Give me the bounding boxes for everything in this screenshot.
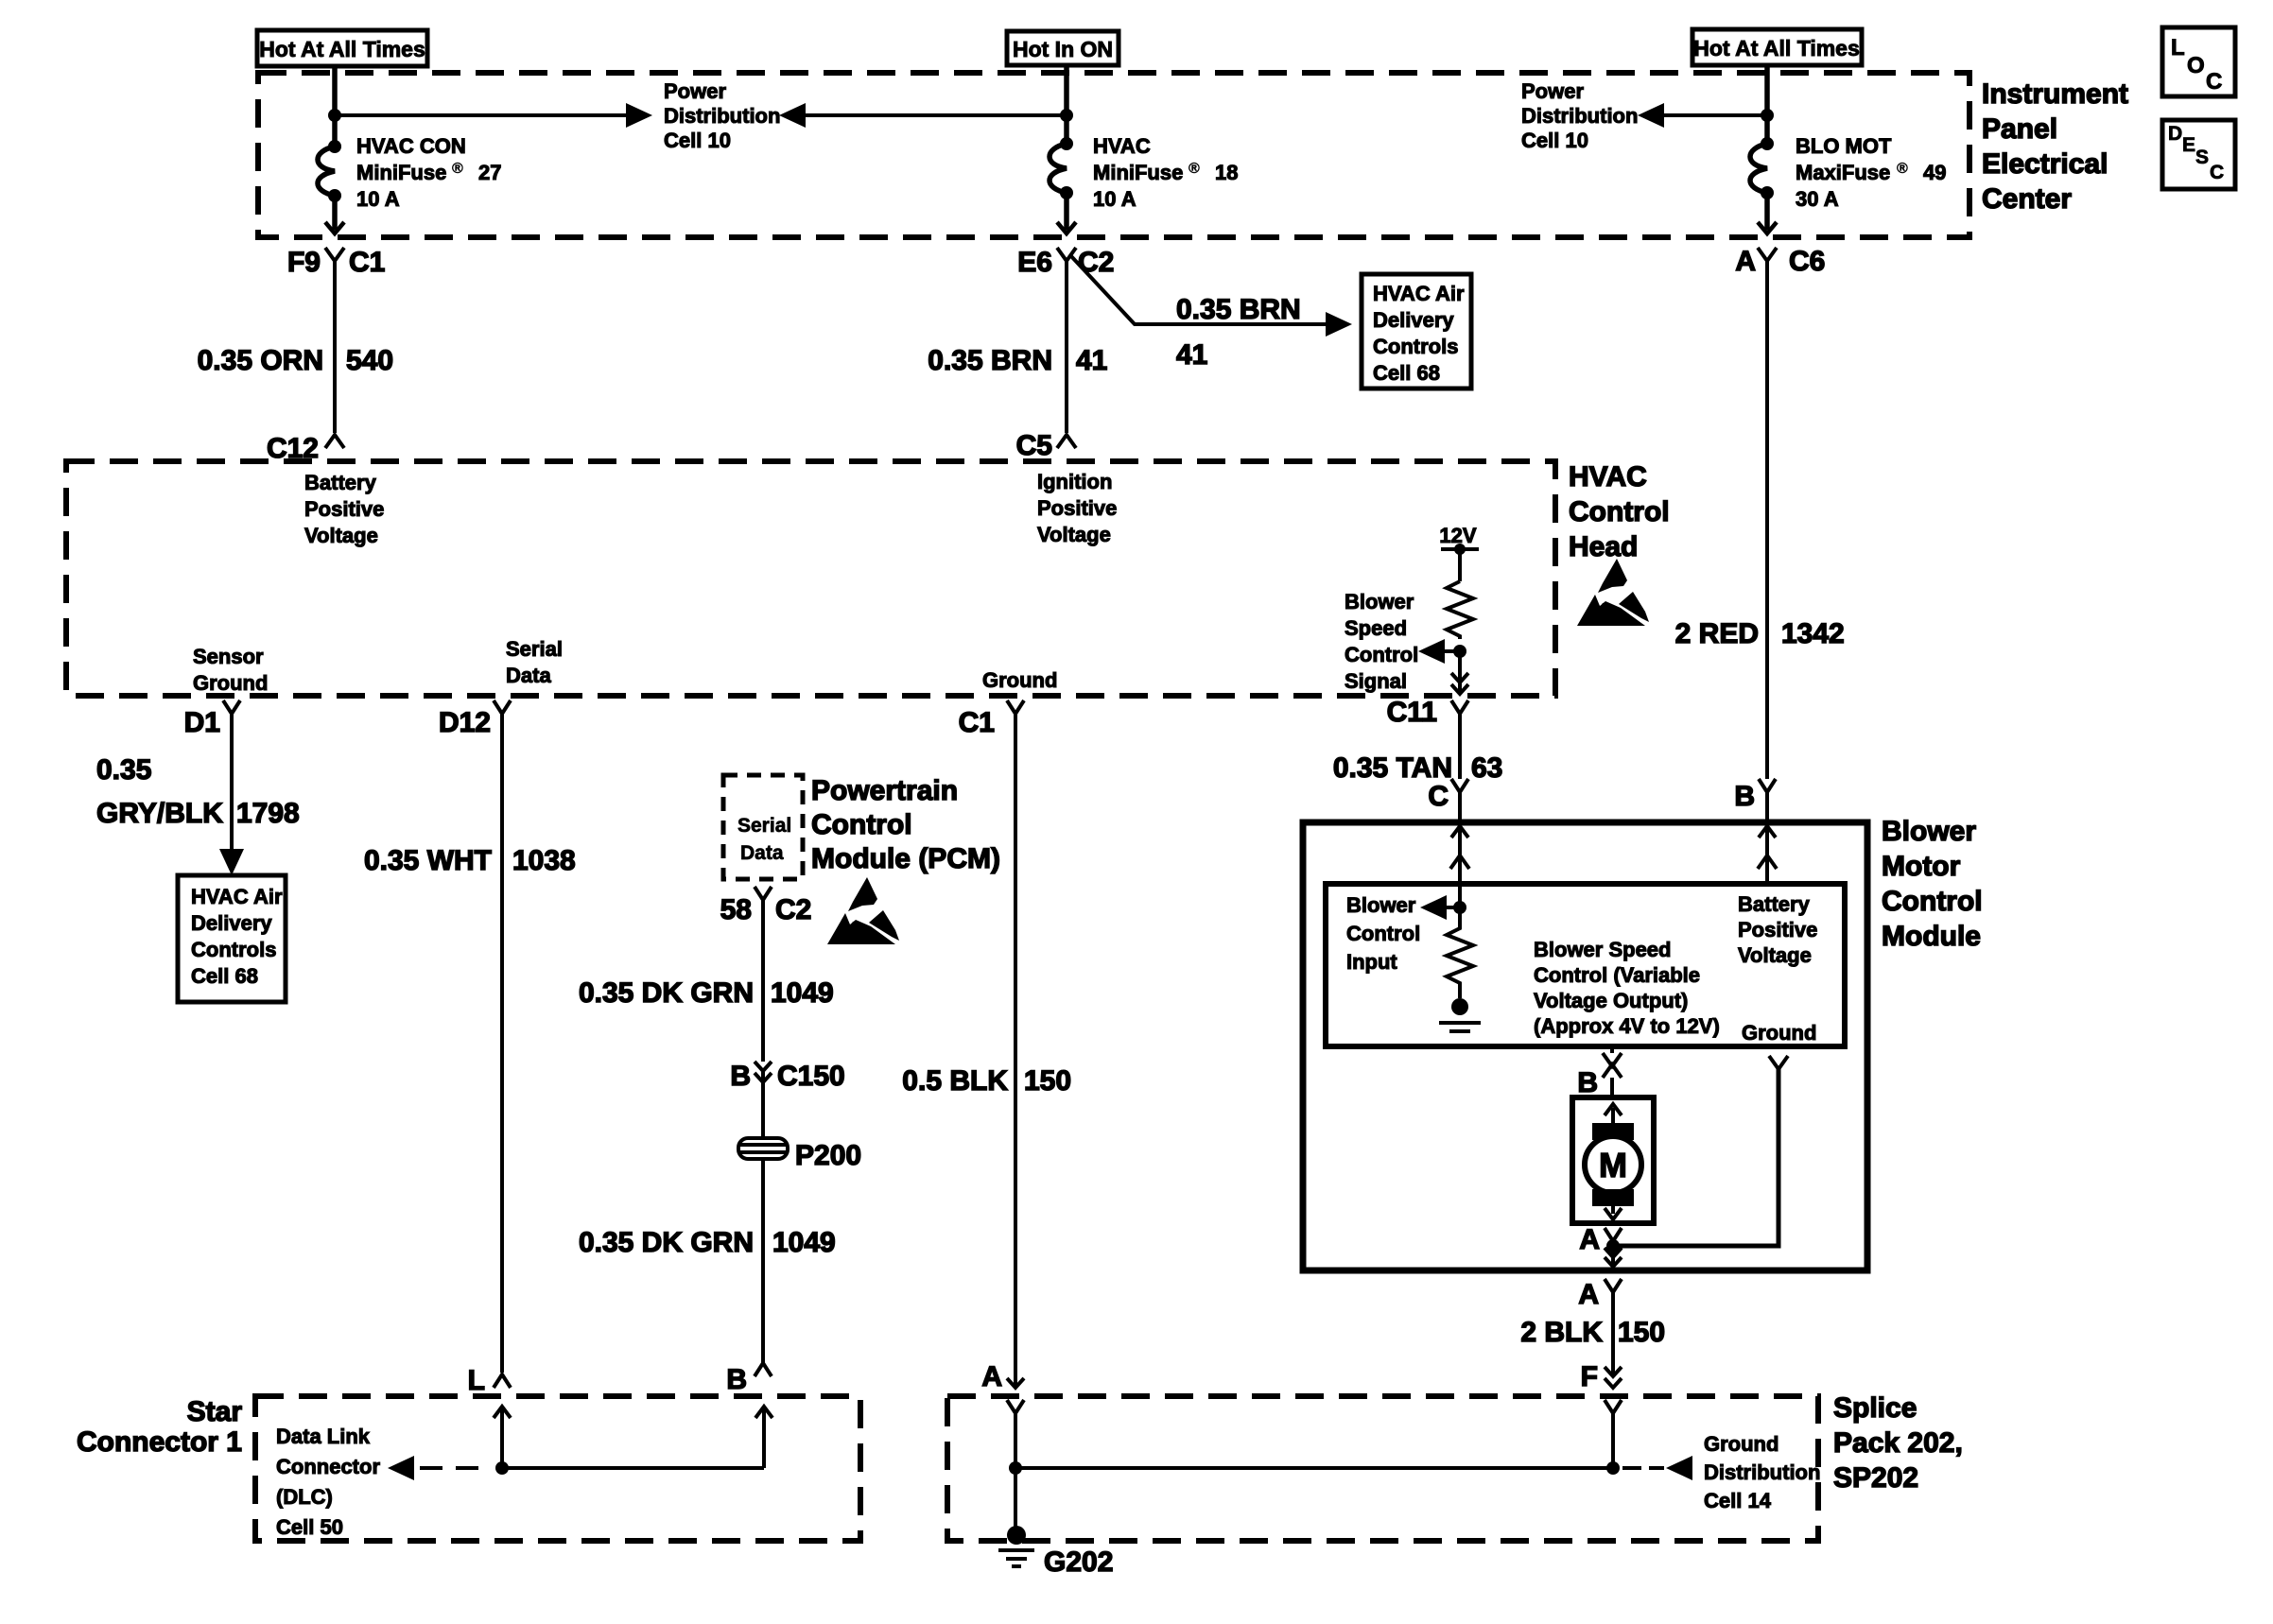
- svg-text:0.35: 0.35: [96, 754, 151, 786]
- junction dot ground bus left: [1009, 1461, 1022, 1475]
- svg-text:Serial: Serial: [506, 637, 563, 661]
- svg-text:HVAC Air: HVAC Air: [1373, 282, 1465, 305]
- svg-text:Voltage: Voltage: [1738, 943, 1812, 967]
- label: Sensor Ground: [193, 645, 268, 695]
- svg-text:Battery: Battery: [1738, 892, 1811, 916]
- svg-text:Power: Power: [1521, 79, 1584, 103]
- svg-text:O: O: [2187, 53, 2205, 78]
- connector F (splice pack): [1581, 1361, 1622, 1392]
- wire: B entry into module: [1758, 826, 1777, 884]
- connector B (motor): [1577, 1046, 1622, 1098]
- label: Battery Positive Voltage (module): [1738, 892, 1817, 967]
- wire: branch 0.35 BRN 41 to HVAC Air Delivery: [1070, 255, 1352, 371]
- svg-text:Voltage: Voltage: [304, 524, 378, 547]
- svg-text:D: D: [2168, 123, 2182, 145]
- wire: 0.35 WHT 1038: [364, 714, 576, 1373]
- wire: star connector internal bus: [502, 1466, 764, 1470]
- wire: 2 RED 1342: [1675, 261, 1845, 779]
- svg-text:P200: P200: [795, 1140, 861, 1171]
- svg-text:HVAC: HVAC: [1093, 134, 1151, 158]
- connector D12: [439, 700, 511, 738]
- wire: Hot In ON to fuse 2: [1064, 65, 1069, 144]
- wire: 2 BLK 150: [1520, 1292, 1665, 1376]
- fuse F3: BLO MOT MaxiFuse 49: [1750, 137, 1777, 233]
- svg-text:Cell 68: Cell 68: [1373, 361, 1440, 385]
- svg-text:Blower: Blower: [1882, 816, 1976, 847]
- svg-text:0.5 BLK: 0.5 BLK: [902, 1065, 1008, 1097]
- label: Serial Data: [506, 637, 563, 687]
- svg-text:Control: Control: [1345, 643, 1418, 666]
- connector B (module input): [1734, 779, 1776, 821]
- svg-text:Instrument: Instrument: [1982, 78, 2128, 110]
- svg-text:Delivery: Delivery: [1373, 308, 1454, 332]
- svg-text:(DLC): (DLC): [276, 1485, 333, 1509]
- svg-text:F9: F9: [287, 247, 321, 278]
- connector C (module input): [1428, 779, 1468, 821]
- svg-text:(Approx 4V to 12V): (Approx 4V to 12V): [1534, 1014, 1720, 1038]
- junction dot motor ground return: [1606, 1239, 1620, 1253]
- label: Star Connector 1: [77, 1396, 242, 1458]
- svg-text:Data Link: Data Link: [276, 1425, 371, 1448]
- HVAC Control Head dashed box: [66, 461, 1555, 696]
- svg-text:HVAC Air: HVAC Air: [191, 885, 283, 908]
- svg-text:Distribution: Distribution: [664, 104, 780, 128]
- svg-text:Ignition: Ignition: [1037, 470, 1112, 493]
- svg-text:Voltage Output): Voltage Output): [1534, 989, 1688, 1012]
- ground (module internal): [1439, 998, 1481, 1031]
- svg-text:E: E: [2182, 134, 2195, 156]
- svg-text:Speed: Speed: [1345, 616, 1407, 640]
- node: Hot In ON: [1007, 31, 1119, 65]
- svg-text:A: A: [1578, 1279, 1599, 1310]
- wire: 0.35 DK GRN 1049 (upper): [579, 900, 834, 1062]
- svg-text:Panel: Panel: [1982, 113, 2057, 145]
- svg-text:Ground: Ground: [982, 668, 1057, 692]
- svg-text:Pack 202,: Pack 202,: [1833, 1427, 1963, 1459]
- svg-text:E6: E6: [1017, 247, 1052, 278]
- DESC box: [2162, 120, 2235, 189]
- Star Connector 1 dashed box: [255, 1396, 860, 1541]
- svg-text:Cell 14: Cell 14: [1704, 1489, 1772, 1512]
- svg-text:BLO MOT: BLO MOT: [1796, 134, 1892, 158]
- svg-text:2 BLK: 2 BLK: [1520, 1317, 1603, 1348]
- svg-text:S: S: [2195, 147, 2209, 168]
- svg-text:C: C: [2210, 162, 2224, 183]
- svg-text:Data: Data: [506, 664, 551, 687]
- wire: C entry into module: [1450, 826, 1469, 907]
- svg-text:Ground: Ground: [193, 671, 268, 695]
- svg-text:Control: Control: [1569, 496, 1670, 527]
- connector C1 (ground): [959, 700, 1024, 738]
- fuse F1: HVAC CON MiniFuse 27: [318, 140, 344, 233]
- svg-text:18: 18: [1215, 161, 1238, 184]
- node: Hot At All Times (right): [1692, 29, 1862, 65]
- svg-text:Distribution: Distribution: [1704, 1460, 1820, 1484]
- node: HVAC Air Delivery Controls Cell 68 (top): [1362, 274, 1471, 389]
- fuse F2: HVAC MiniFuse 18: [1050, 137, 1076, 233]
- resistor (blower control input): [1447, 907, 1473, 998]
- label: Ignition Positive Voltage: [1037, 470, 1117, 546]
- svg-text:30 A: 30 A: [1796, 187, 1839, 211]
- svg-text:Control: Control: [1882, 886, 1983, 917]
- wire: to P200: [761, 1071, 765, 1138]
- svg-text:10 A: 10 A: [356, 187, 400, 211]
- grommet P200: [738, 1138, 861, 1171]
- svg-text:Hot In ON: Hot In ON: [1013, 37, 1113, 61]
- node: Hot At All Times (left): [257, 30, 427, 66]
- svg-text:Controls: Controls: [1373, 335, 1458, 358]
- svg-text:58: 58: [720, 894, 752, 925]
- svg-text:G202: G202: [1044, 1546, 1113, 1578]
- svg-text:C2: C2: [775, 894, 811, 925]
- svg-text:D1: D1: [184, 707, 220, 738]
- svg-text:0.35 WHT: 0.35 WHT: [364, 845, 492, 876]
- svg-text:MaxiFuse: MaxiFuse: [1796, 161, 1890, 184]
- svg-text:A: A: [981, 1361, 1002, 1392]
- svg-text:Positive: Positive: [1037, 496, 1117, 520]
- connector D1: [184, 700, 240, 738]
- svg-text:Cell 68: Cell 68: [191, 964, 258, 988]
- wire: 0.35 TAN 63: [1333, 714, 1503, 784]
- label: Blower Speed Control Signal: [1345, 590, 1418, 693]
- wire: F entry fork: [1605, 1400, 1622, 1468]
- svg-text:®: ®: [452, 161, 463, 177]
- label: Blower Speed Control (Variable Voltage Output) (Approx 4V to 12V): [1534, 938, 1720, 1038]
- junction dot blower speed signal: [1453, 645, 1466, 658]
- wire: ground return to module ground: [1613, 1056, 1788, 1246]
- svg-text:MiniFuse: MiniFuse: [356, 161, 446, 184]
- module inner box: [1326, 884, 1845, 1046]
- svg-text:M: M: [1599, 1146, 1627, 1184]
- svg-text:B: B: [1577, 1067, 1598, 1098]
- node: HVAC Air Delivery Controls Cell 68 (bottom): [178, 875, 286, 1002]
- junction dot fuse2 feed: [1060, 109, 1073, 122]
- svg-text:D12: D12: [439, 707, 491, 738]
- connector L (star connector): [468, 1365, 511, 1396]
- svg-text:0.35 BRN: 0.35 BRN: [1176, 294, 1301, 325]
- svg-text:HVAC: HVAC: [1569, 461, 1647, 492]
- svg-text:C150: C150: [777, 1061, 845, 1092]
- svg-text:MiniFuse: MiniFuse: [1093, 161, 1183, 184]
- ground G202: [998, 1526, 1113, 1578]
- connector A (splice pack): [981, 1361, 1024, 1392]
- svg-text:Control (Variable: Control (Variable: [1534, 963, 1700, 987]
- svg-text:HVAC CON: HVAC CON: [356, 134, 466, 158]
- wire: 0.35 DK GRN 1049 (lower): [579, 1159, 836, 1363]
- svg-text:Controls: Controls: [191, 938, 276, 961]
- svg-text:Blower: Blower: [1346, 893, 1416, 917]
- svg-text:B: B: [730, 1061, 751, 1092]
- svg-text:Blower: Blower: [1345, 590, 1414, 613]
- svg-text:2 RED: 2 RED: [1675, 618, 1759, 649]
- label: Power Distribution Cell 10 (left): [664, 79, 780, 152]
- svg-text:27: 27: [478, 161, 501, 184]
- svg-text:GRY/BLK: GRY/BLK: [96, 798, 223, 829]
- svg-text:Sensor: Sensor: [193, 645, 264, 668]
- svg-text:41: 41: [1076, 345, 1107, 376]
- svg-text:Power: Power: [664, 79, 726, 103]
- svg-text:Control: Control: [1346, 922, 1420, 945]
- svg-text:Hot At All Times: Hot At All Times: [259, 37, 425, 61]
- svg-text:Signal: Signal: [1345, 669, 1407, 693]
- junction dot F wire: [1606, 1461, 1620, 1475]
- label: HVAC MiniFuse 18 10A: [1093, 134, 1238, 211]
- junction dot L wire: [495, 1461, 509, 1475]
- svg-text:41: 41: [1176, 339, 1207, 371]
- svg-text:Electrical: Electrical: [1982, 148, 2108, 180]
- svg-text:Motor: Motor: [1882, 851, 1961, 882]
- connector A (motor output): [1579, 1224, 1622, 1255]
- svg-text:Cell 10: Cell 10: [1521, 129, 1588, 152]
- connector B (star connector): [726, 1363, 772, 1395]
- svg-text:Cell 10: Cell 10: [664, 129, 731, 152]
- label: Blower Motor Control Module: [1882, 816, 1983, 952]
- connector B C150: [730, 1061, 844, 1092]
- svg-text:A: A: [1735, 246, 1756, 277]
- svg-text:®: ®: [1189, 161, 1200, 177]
- svg-text:A: A: [1579, 1224, 1600, 1255]
- svg-text:C: C: [2206, 69, 2222, 95]
- label: Instrument Panel Electrical Center: [1982, 78, 2128, 215]
- svg-text:Cell 50: Cell 50: [276, 1515, 343, 1539]
- PCM serial data dashed box: [723, 775, 803, 879]
- svg-text:0.35 DK GRN: 0.35 DK GRN: [579, 1227, 754, 1258]
- svg-text:Connector: Connector: [276, 1455, 380, 1478]
- wire: 0.35 GRY/BLK 1798: [96, 714, 300, 875]
- svg-text:B: B: [726, 1364, 747, 1395]
- svg-text:C1: C1: [349, 247, 385, 278]
- svg-text:Module: Module: [1882, 921, 1981, 952]
- svg-text:49: 49: [1923, 161, 1946, 184]
- svg-text:C6: C6: [1789, 246, 1825, 277]
- svg-text:63: 63: [1471, 752, 1502, 784]
- label: HVAC CON MiniFuse 27 10A: [356, 134, 501, 211]
- Blower Motor Control Module box: [1303, 822, 1867, 1270]
- svg-text:Positive: Positive: [304, 497, 384, 521]
- svg-text:C2: C2: [1078, 247, 1114, 278]
- svg-text:1038: 1038: [512, 845, 576, 876]
- connector C11: [1387, 697, 1468, 728]
- svg-text:C: C: [1428, 781, 1449, 812]
- wire: DLC arrow (dashed): [388, 1456, 478, 1480]
- LOC box: [2162, 27, 2235, 96]
- wire: module exit arrow: [1605, 1246, 1622, 1267]
- svg-text:Powertrain: Powertrain: [811, 775, 958, 806]
- Splice Pack dashed box: [947, 1396, 1818, 1541]
- svg-text:10 A: 10 A: [1093, 187, 1136, 211]
- svg-text:®: ®: [1897, 161, 1908, 177]
- svg-text:C5: C5: [1016, 430, 1052, 461]
- label: Ground (HVAC head): [982, 668, 1057, 692]
- wire: splice internal bus: [1015, 1466, 1613, 1470]
- svg-text:Delivery: Delivery: [191, 911, 272, 935]
- svg-text:540: 540: [346, 345, 393, 376]
- svg-text:0.35 BRN: 0.35 BRN: [928, 345, 1052, 376]
- connector F9 C1: [287, 247, 385, 278]
- wire: blower speed control signal arrow: [1418, 639, 1460, 664]
- svg-text:0.35 DK GRN: 0.35 DK GRN: [579, 977, 754, 1009]
- svg-text:1342: 1342: [1781, 618, 1845, 649]
- svg-text:L: L: [468, 1365, 485, 1396]
- motor M1: blower motor: [1572, 1097, 1654, 1223]
- svg-text:C11: C11: [1387, 697, 1437, 728]
- 12V supply: [1439, 524, 1479, 581]
- wire: 0.5 BLK 150: [902, 714, 1071, 1375]
- Instrument Panel Electrical Center dashed box: [258, 73, 1969, 237]
- svg-text:F: F: [1581, 1361, 1598, 1392]
- label: Data Link Connector (DLC) Cell 50: [276, 1425, 380, 1539]
- label: Powertrain Control Module (PCM): [811, 775, 1000, 874]
- connector E6 C2: [1017, 247, 1114, 278]
- label: Power Distribution Cell 10 (right): [1521, 79, 1638, 152]
- wire: L entry arrow: [494, 1407, 511, 1468]
- svg-text:Input: Input: [1346, 950, 1397, 974]
- ESD symbol (PCM): [827, 877, 899, 944]
- svg-text:1049: 1049: [771, 977, 834, 1009]
- wire: Hot At All Times to fuse 3: [1764, 65, 1770, 144]
- svg-text:Ground: Ground: [1704, 1432, 1778, 1456]
- svg-text:1798: 1798: [236, 798, 300, 829]
- resistor (blower speed control): [1447, 581, 1473, 639]
- label: HVAC Control Head: [1569, 461, 1670, 562]
- svg-text:Control: Control: [811, 809, 912, 840]
- svg-text:150: 150: [1024, 1065, 1071, 1097]
- wire: blower control arrow: [1420, 895, 1460, 920]
- wire: Hot At All Times to fuse 1: [332, 66, 338, 147]
- svg-text:Serial: Serial: [737, 815, 791, 837]
- svg-text:Data: Data: [740, 842, 784, 864]
- svg-text:Positive: Positive: [1738, 918, 1817, 942]
- wire: B entry arrow: [755, 1407, 772, 1468]
- svg-text:0.35 TAN: 0.35 TAN: [1333, 752, 1452, 784]
- junction dot fuse3 feed: [1761, 109, 1774, 122]
- junction dot fuse1 feed: [328, 109, 341, 122]
- svg-text:Module (PCM): Module (PCM): [811, 843, 1000, 874]
- connector A C6: [1735, 246, 1825, 277]
- svg-text:Connector 1: Connector 1: [77, 1426, 242, 1458]
- svg-text:SP202: SP202: [1833, 1462, 1918, 1494]
- svg-text:12V: 12V: [1439, 524, 1476, 547]
- wire: 0.35 BRN 41: [928, 261, 1107, 433]
- label: BLO MOT MaxiFuse 49 30A: [1796, 134, 1946, 211]
- label: Splice Pack 202, SP202: [1833, 1392, 1963, 1494]
- svg-text:Hot At All Times: Hot At All Times: [1693, 36, 1860, 60]
- wire: ground distribution arrow (dashed): [1622, 1456, 1692, 1480]
- junction dot blower control: [1453, 901, 1466, 914]
- svg-text:Ground: Ground: [1742, 1021, 1816, 1045]
- svg-text:Distribution: Distribution: [1521, 104, 1638, 128]
- connector A fork (splice inside): [1007, 1400, 1024, 1531]
- svg-text:Blower Speed: Blower Speed: [1534, 938, 1671, 961]
- wire: 0.35 ORN 540: [198, 261, 393, 433]
- svg-text:Center: Center: [1982, 183, 2072, 215]
- svg-text:Battery: Battery: [304, 471, 377, 494]
- wire: feed to Power Distribution (left, arrow right): [335, 103, 652, 128]
- svg-text:Head: Head: [1569, 531, 1638, 562]
- connector C12: [267, 433, 344, 464]
- svg-text:C1: C1: [959, 707, 995, 738]
- svg-text:150: 150: [1618, 1317, 1665, 1348]
- svg-text:B: B: [1734, 781, 1755, 812]
- connector C5: [1016, 430, 1076, 461]
- label: Ground Distribution Cell 14: [1704, 1432, 1820, 1512]
- wire: feed to Power Distribution (arrow left): [779, 103, 1067, 128]
- svg-text:Star: Star: [187, 1396, 243, 1427]
- connector A (below module): [1578, 1279, 1622, 1310]
- svg-text:1049: 1049: [772, 1227, 836, 1258]
- label: Blower Control Input: [1346, 893, 1420, 974]
- svg-text:0.35 ORN: 0.35 ORN: [198, 345, 323, 376]
- label: Battery Positive Voltage: [304, 471, 384, 547]
- connector 58 C2: [720, 887, 812, 925]
- svg-text:Splice: Splice: [1833, 1392, 1917, 1424]
- label: Ground (module): [1742, 1021, 1816, 1045]
- svg-text:Voltage: Voltage: [1037, 523, 1111, 546]
- svg-text:L: L: [2171, 35, 2185, 60]
- ESD symbol (HVAC control head): [1577, 559, 1649, 626]
- wire: feed to Power Distribution (right, arrow left): [1638, 103, 1767, 128]
- wire: signal down to C11: [1451, 651, 1468, 694]
